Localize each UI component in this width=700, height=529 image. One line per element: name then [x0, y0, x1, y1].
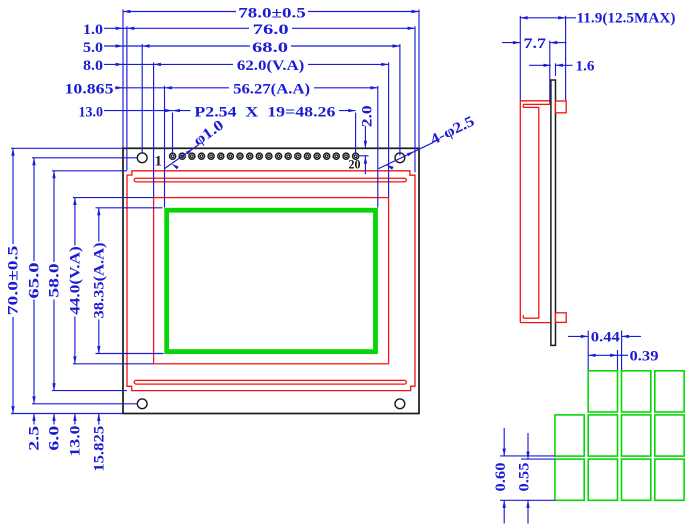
- dimension P2.54 X 19=48.26 pin pitch with 13.0 offset: [79, 104, 356, 154]
- svg-text:62.0(V.A): 62.0(V.A): [237, 58, 305, 74]
- pin 1 label: [154, 153, 162, 169]
- svg-text:1.6: 1.6: [576, 59, 596, 75]
- svg-text:76.0: 76.0: [253, 22, 289, 38]
- metal bezel outline with corner tabs: [127, 171, 415, 391]
- svg-text:2.5: 2.5: [27, 426, 43, 451]
- svg-text:6.0: 6.0: [47, 426, 63, 451]
- svg-text:5.0: 5.0: [83, 40, 103, 56]
- svg-text:1: 1: [154, 153, 162, 169]
- mounting hole top-right: [395, 153, 405, 163]
- pixel grid detail: [555, 371, 684, 501]
- svg-text:68.0: 68.0: [252, 40, 288, 56]
- svg-text:65.0: 65.0: [27, 262, 43, 298]
- svg-text:13.0: 13.0: [79, 104, 104, 120]
- dimension 38.35(A.A) with 15.825 offset: [92, 208, 164, 472]
- dimension 62.0(V.A) with 8.0 offset: [83, 58, 389, 197]
- PCB outline (front view): [123, 148, 419, 413]
- dimension 0.60 pixel pitch vertical: [493, 428, 555, 524]
- dimension 56.27(A.A) with 10.865 offset: [65, 82, 378, 208]
- dimension 0.39 pixel width: [588, 348, 658, 370]
- svg-text:0.60: 0.60: [493, 463, 509, 492]
- svg-text:70.0±0.5: 70.0±0.5: [6, 246, 22, 316]
- svg-text:78.0±0.5: 78.0±0.5: [238, 5, 306, 21]
- svg-text:10.865: 10.865: [65, 82, 114, 98]
- dimension 44.0(V.A) with 13.0 offset: [68, 198, 154, 457]
- mounting hole bottom-left: [137, 399, 147, 409]
- svg-text:7.7: 7.7: [524, 36, 547, 52]
- bezel top slot: [134, 178, 406, 182]
- mounting hole top-left: [137, 153, 147, 163]
- svg-text:0.44: 0.44: [591, 330, 621, 346]
- dimension 11.9(12.5MAX) side total thickness: [520, 11, 675, 101]
- svg-text:38.35(A.A): 38.35(A.A): [92, 243, 108, 319]
- svg-text:44.0(V.A): 44.0(V.A): [68, 246, 84, 315]
- dimension 68.0 hole spacing with 5.0 offset: [83, 40, 400, 156]
- dimension 1.6 PCB thickness: [529, 59, 595, 76]
- dimension 65.0 hole spacing vertical with 2.5 offset: [27, 158, 138, 451]
- side view top bezel tab: [556, 101, 567, 113]
- dimension 7.7 bezel-to-PCB: [502, 36, 567, 101]
- svg-text:0.55: 0.55: [517, 463, 533, 492]
- svg-text:56.27(A.A): 56.27(A.A): [233, 82, 310, 98]
- side view bezel profile: [520, 101, 551, 323]
- leader 4-phi-2.5 mounting holes: [379, 114, 478, 170]
- viewing area (V.A) red rectangle: [154, 198, 389, 364]
- side view PCB: [551, 80, 556, 345]
- dimension 78.0±0.5 overall width: [123, 5, 419, 148]
- pin header pads 1-20: [170, 153, 359, 159]
- svg-text:11.9(12.5MAX): 11.9(12.5MAX): [577, 11, 676, 27]
- svg-text:58.0: 58.0: [47, 263, 63, 297]
- svg-text:8.0: 8.0: [83, 58, 103, 74]
- side view bottom bezel tab: [556, 313, 567, 323]
- svg-text:13.0: 13.0: [68, 426, 84, 457]
- mounting hole bottom-right: [395, 399, 405, 409]
- pin 20 label: [349, 157, 361, 171]
- svg-text:15.825: 15.825: [92, 426, 108, 472]
- svg-text:0.39: 0.39: [630, 348, 659, 364]
- svg-text:20: 20: [349, 157, 361, 171]
- dimension 2.0 pin row offset: [358, 105, 375, 174]
- svg-text:2.0: 2.0: [359, 105, 375, 127]
- dimension 58.0 bezel height with 6.0 offset: [47, 171, 127, 451]
- dimension 76.0 bezel width with 1.0 offset: [83, 22, 415, 172]
- dimension 0.55 pixel height: [517, 433, 555, 524]
- dimension 0.44 pixel pitch horizontal: [568, 330, 641, 371]
- svg-text:1.0: 1.0: [83, 22, 103, 38]
- leader phi-1.0 pin hole diameter: [165, 117, 227, 169]
- dimension 70.0±0.5 overall height: [6, 148, 123, 413]
- bezel bottom slot: [134, 380, 406, 384]
- active area (A.A) green rectangle: [167, 210, 376, 351]
